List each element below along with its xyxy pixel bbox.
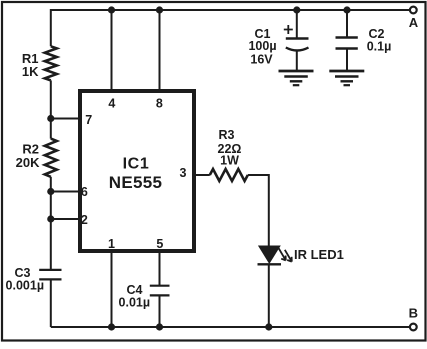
svg-text:0.001µ: 0.001µ: [6, 279, 44, 293]
node pin1 bottom junction: [108, 323, 115, 330]
svg-text:0.1µ: 0.1µ: [367, 40, 392, 54]
svg-text:NE555: NE555: [109, 173, 162, 192]
node LED bottom junction: [265, 323, 272, 330]
svg-text:1W: 1W: [220, 154, 239, 168]
wire pin 1: [111, 252, 113, 327]
svg-text:5: 5: [156, 237, 163, 251]
wire pin 7: [51, 118, 79, 120]
svg-text:8: 8: [156, 96, 163, 110]
op-amp U1 IC box: [80, 91, 194, 251]
resistor R2: [45, 139, 57, 177]
wire C2 to ground: [346, 49, 348, 71]
resistor R3: [210, 169, 248, 181]
svg-text:A: A: [409, 15, 419, 30]
wire LED to bottom rail: [268, 264, 270, 327]
wire pin 8: [159, 10, 161, 90]
svg-text:3: 3: [180, 166, 187, 180]
wire pin 6: [51, 191, 79, 193]
capacitor C3: [39, 269, 61, 271]
svg-text:1K: 1K: [22, 64, 39, 79]
svg-text:2: 2: [81, 213, 88, 227]
capacitor C2: [336, 36, 358, 38]
wire C4 to bottom rail: [159, 295, 161, 327]
wire C1 to ground: [296, 51, 298, 71]
capacitor C4: [150, 285, 170, 287]
svg-text:20K: 20K: [16, 155, 40, 170]
svg-text:1: 1: [108, 237, 115, 251]
node pin4 junction: [108, 6, 115, 13]
wire C3 to bottom rail: [50, 279, 52, 327]
node pin7 junction: [47, 115, 54, 122]
wire bottom rail: [51, 326, 410, 328]
node C2 top junction: [343, 6, 350, 13]
svg-text:7: 7: [85, 113, 92, 127]
node C1 top junction: [293, 6, 300, 13]
node A terminal: [410, 7, 417, 14]
svg-text:B: B: [409, 306, 418, 321]
resistor R1: [45, 46, 57, 80]
node pin6 junction: [47, 188, 54, 195]
svg-text:4: 4: [108, 96, 115, 110]
wire pin 3: [194, 174, 210, 176]
node B terminal: [410, 324, 417, 331]
svg-text:IR LED1: IR LED1: [294, 247, 344, 262]
capacitor C1: [286, 37, 309, 39]
ground C2: [329, 71, 364, 85]
svg-text:0.01µ: 0.01µ: [119, 295, 151, 309]
node pin8 junction: [156, 6, 163, 13]
node pin5 bottom junction: [156, 323, 163, 330]
node pin2 junction: [47, 215, 54, 222]
wire C2 top: [346, 10, 348, 38]
ground C1: [279, 71, 314, 85]
svg-text:6: 6: [81, 185, 88, 199]
svg-text:100µ: 100µ: [248, 39, 276, 53]
wire R3 to LED: [248, 175, 269, 247]
wire pin 2: [51, 218, 79, 220]
diode IR LED1: [259, 246, 280, 263]
wire top rail: [51, 10, 410, 46]
wire left rail R1 to R2: [50, 80, 52, 138]
svg-text:R3: R3: [219, 128, 235, 142]
svg-text:IC1: IC1: [123, 156, 150, 173]
svg-text:16V: 16V: [250, 53, 273, 67]
wire C1 top: [296, 10, 298, 39]
capacitor C1 polarity plus: [284, 25, 293, 34]
wire left rail R2 to C3: [50, 177, 52, 269]
LED emission arrows: [279, 248, 286, 260]
wire pin 4: [111, 10, 113, 90]
wire pin 5 to C4: [159, 252, 161, 285]
